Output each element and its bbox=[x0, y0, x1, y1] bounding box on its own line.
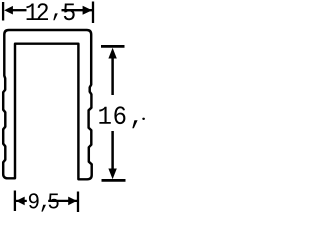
bottom dimension: left arrow bbox=[16, 197, 25, 206]
top dimension: right arrow bbox=[83, 6, 93, 15]
vertical dimension: bottom bar bbox=[102, 179, 126, 182]
bottom dimension: right arrow bbox=[68, 197, 77, 206]
vertical dimension label 16,5 (clipped at right edge) bbox=[99, 107, 111, 124]
top dimension label 12,5 bbox=[27, 4, 38, 21]
clipped digit 5 remnant at image edge bbox=[142, 118, 145, 120]
top dimension: left arrow bbox=[4, 6, 13, 15]
bottom dimension: right tick bbox=[77, 192, 79, 213]
vertical dimension: down arrow bbox=[108, 169, 116, 180]
vertical dimension: up arrow bbox=[108, 48, 116, 59]
top dimension: left tick bbox=[2, 2, 4, 21]
vertical dimension: top bar bbox=[101, 45, 125, 48]
profile outline (U-channel cross-section) bbox=[3, 30, 92, 179]
top dimension: right tick bbox=[92, 2, 94, 24]
bottom dimension label 9,5 bbox=[29, 193, 39, 208]
bottom dimension: left tick bbox=[14, 191, 16, 212]
